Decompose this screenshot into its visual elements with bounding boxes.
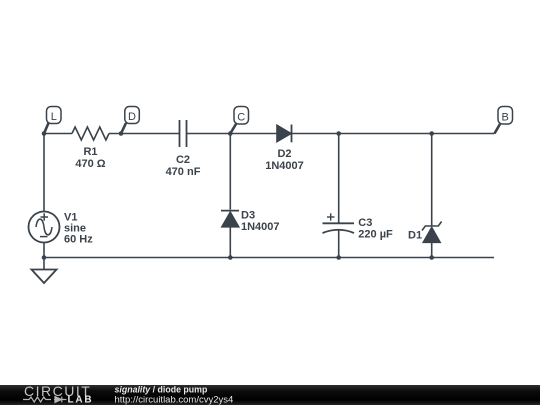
junction dots [42,131,434,260]
node L junction [42,131,47,136]
node flag L [44,107,61,134]
node D junction [119,131,124,136]
wire V1 to ground [43,243,45,258]
wire C2 to D2 [187,133,278,135]
svg-text:D1: D1 [408,230,422,242]
svg-text:C: C [237,111,245,123]
svg-text:60 Hz: 60 Hz [64,234,93,246]
svg-text:220 µF: 220 µF [358,229,393,241]
wire ground stub [43,258,45,270]
svg-text:1N4007: 1N4007 [265,160,304,172]
wire D2 to node B end [292,133,495,135]
ground [32,270,57,284]
wire R1 to C2 [109,133,179,135]
svg-text:470 nF: 470 nF [166,166,201,178]
svg-text:470 Ω: 470 Ω [75,158,105,170]
wire top rail to C3 [338,134,340,224]
node flag C [230,107,248,134]
wire node C down to D3 [229,134,231,210]
wire top rail L to R1 [44,133,72,135]
capacitor C3 [323,222,355,224]
voltage source V1 [29,212,60,243]
svg-text:http://circuitlab.com/cvy2ys4: http://circuitlab.com/cvy2ys4 [115,395,234,405]
node C junction [228,131,233,136]
node flag B [495,107,513,134]
junction top D1 [429,131,434,136]
svg-text:B: B [502,111,509,123]
svg-text:R1: R1 [83,146,97,158]
diode D3 [221,210,239,212]
capacitor C2 [180,120,187,147]
svg-text:D: D [128,111,136,123]
logo resistor zigzag [23,397,51,402]
labels [64,146,422,246]
node flag D [121,107,139,134]
wire top rail to D1 [431,134,433,227]
diode D2 [277,125,291,141]
svg-text:D2: D2 [277,148,291,160]
svg-text:C3: C3 [358,217,372,229]
svg-text:C2: C2 [176,154,190,166]
zener diode D1 [422,222,442,231]
junction bottom D1 [429,255,434,260]
svg-text:D3: D3 [241,210,255,222]
svg-text:1N4007: 1N4007 [241,221,280,233]
junction bottom D3 [228,255,233,260]
junction top C3 [336,131,341,136]
svg-text:LAB: LAB [68,395,94,405]
wire bottom rail [44,257,494,259]
junction bottom C3 [336,255,341,260]
logo diode [54,397,67,403]
wire left branch down from L [43,134,45,212]
resistor R1 [72,127,109,140]
svg-text:signality / diode pump: signality / diode pump [115,384,209,394]
junction bottom V1 [42,255,47,260]
svg-text:L: L [51,111,57,123]
